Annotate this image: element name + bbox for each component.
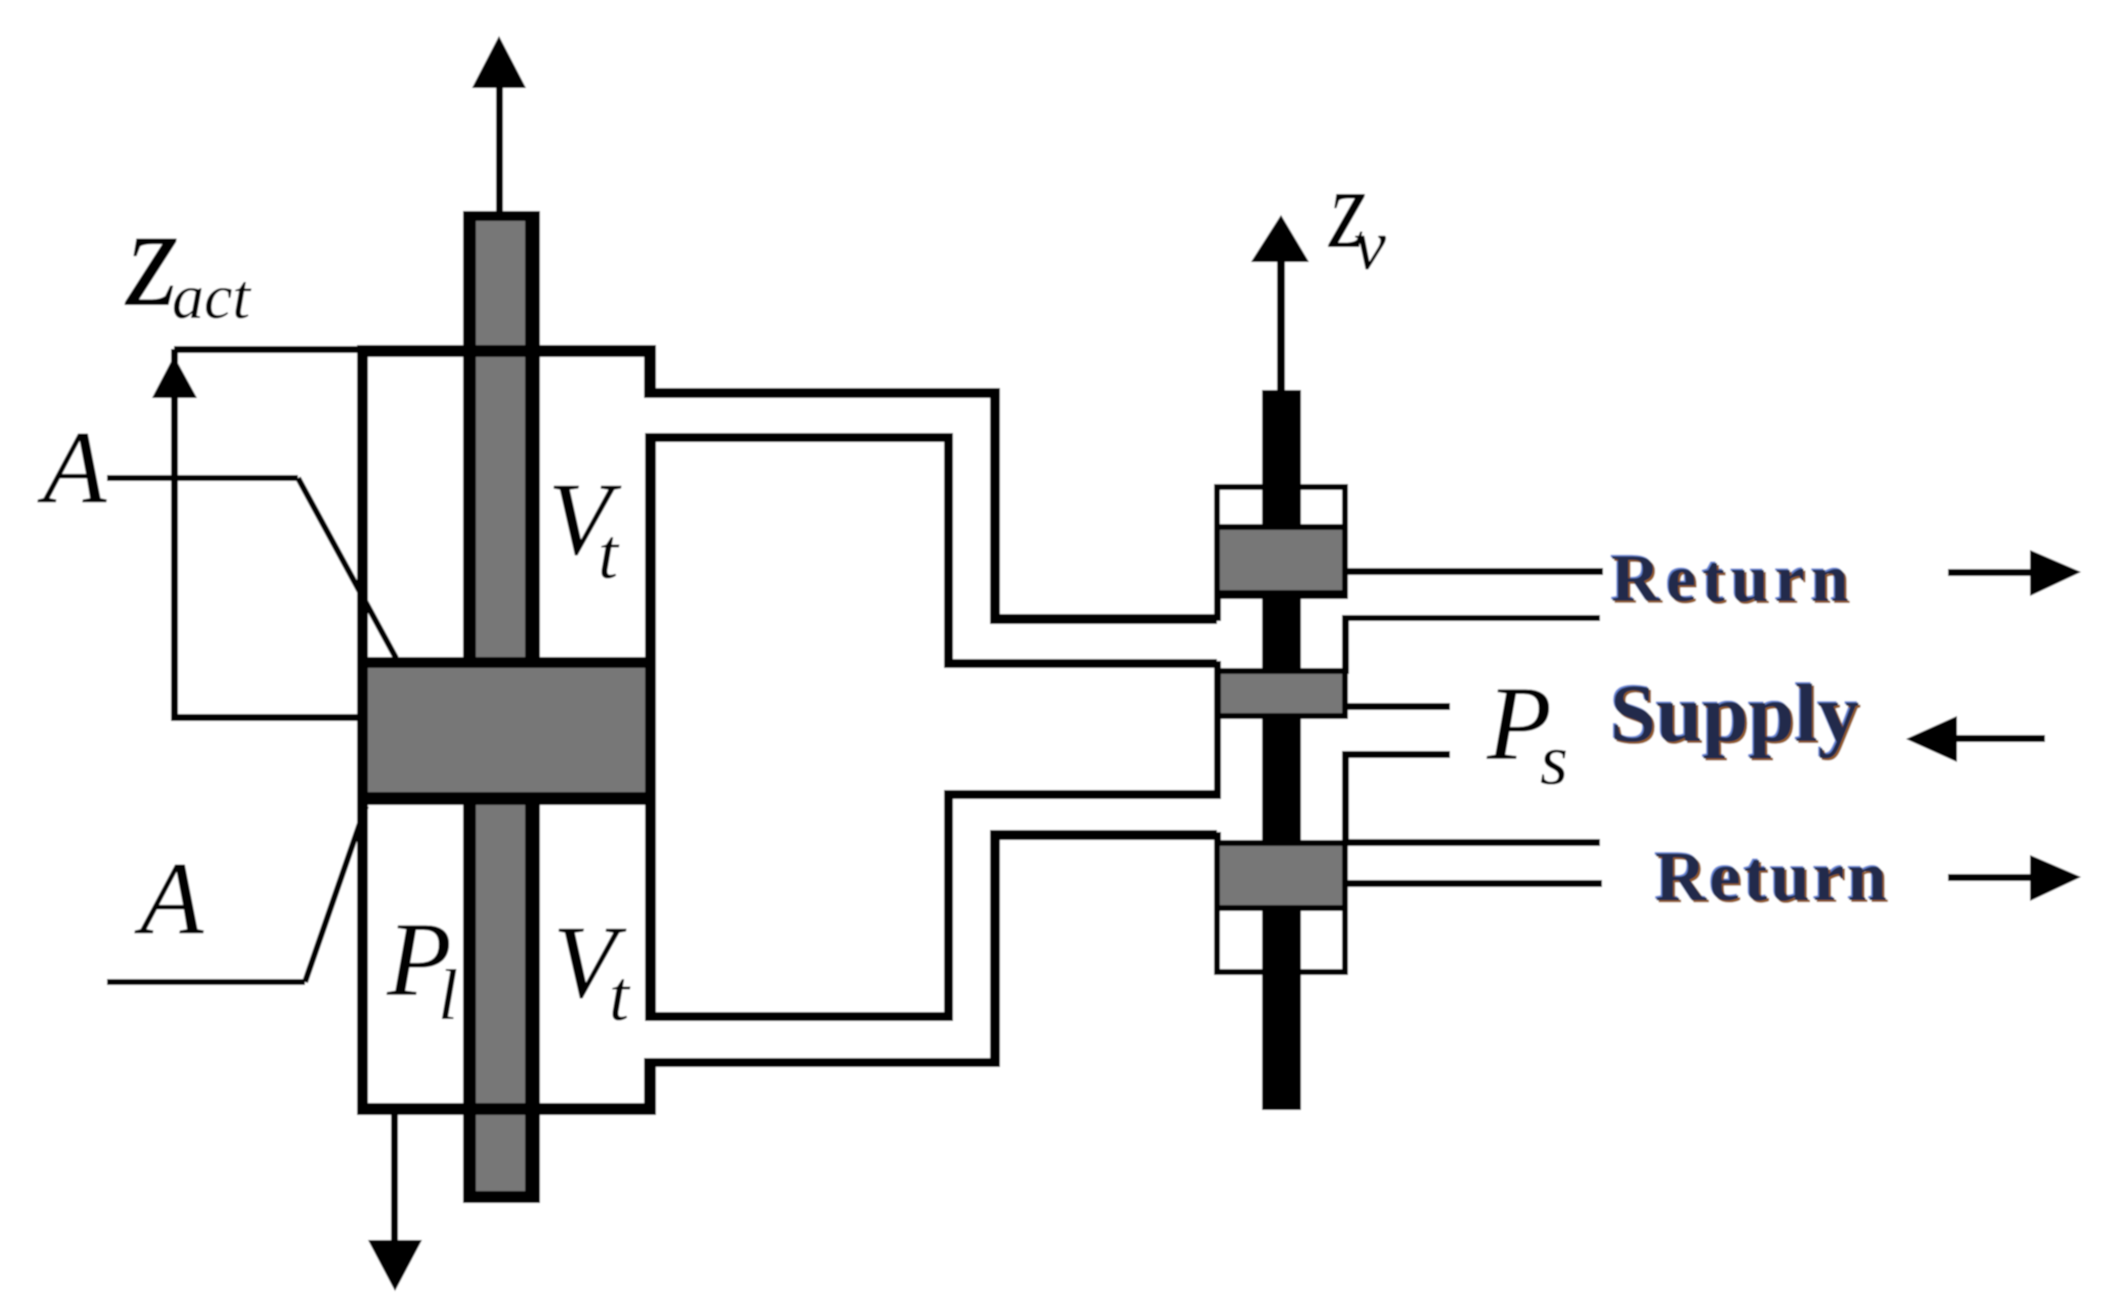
- wire pipe1 upper channel top wall: [648, 388, 1217, 624]
- label z_v: [1327, 145, 1386, 285]
- svg-text:v: v: [1354, 205, 1386, 285]
- label A upper with leader line: [37, 410, 396, 658]
- z_act measurement arrow: [152, 346, 361, 721]
- label V_t upper chamber: [548, 462, 622, 594]
- svg-text:A: A: [37, 410, 107, 525]
- svg-text:t: t: [598, 514, 620, 594]
- svg-text:z: z: [124, 177, 178, 338]
- arrow cylinder bottom: [368, 1113, 422, 1291]
- label Supply: [1609, 666, 1862, 762]
- arrow rod top (load direction): [472, 36, 526, 213]
- valve spool rod: [1262, 390, 1301, 1110]
- valve top end box: [1217, 487, 1345, 596]
- port line return bottom lower: [1344, 880, 1602, 887]
- label V_t lower chamber: [553, 905, 631, 1036]
- svg-text:Return: Return: [1655, 838, 1890, 916]
- valve bottom land: [1217, 843, 1345, 908]
- port line supply upper: [1344, 703, 1450, 710]
- svg-text:Return: Return: [1611, 540, 1855, 616]
- port line return bottom upper: [1342, 839, 1600, 846]
- valve bottom end box: [1217, 843, 1345, 972]
- svg-text:A: A: [134, 841, 204, 956]
- label P_s: [1486, 665, 1568, 800]
- arrow supply (flow in): [1906, 716, 2045, 762]
- label Return top: [1610, 539, 1857, 619]
- valve middle land: [1217, 671, 1345, 716]
- label P_l lower chamber: [386, 901, 458, 1035]
- label Return bottom: [1654, 837, 1892, 919]
- label z_act: [124, 177, 252, 338]
- wire pipe4 lower channel bottom wall: [650, 830, 1217, 1067]
- z_v arrow: [1251, 215, 1309, 390]
- svg-text:Supply: Supply: [1610, 667, 1859, 759]
- valve bore left wall segments: [1214, 596, 1221, 846]
- svg-text:t: t: [609, 956, 631, 1036]
- svg-text:act: act: [172, 261, 252, 332]
- actuator piston rod (gray, outlined): [463, 211, 540, 1203]
- arrow return top (flow out): [1948, 550, 2081, 596]
- label A lower with leader line: [107, 806, 366, 985]
- actuator piston: [368, 657, 645, 805]
- svg-text:l: l: [438, 955, 458, 1035]
- port line return top lower: [1344, 615, 1600, 621]
- actuator cylinder body walls: [357, 345, 656, 1115]
- port line return top (from top land): [1344, 568, 1603, 575]
- svg-text:s: s: [1540, 720, 1568, 800]
- valve bore right wall segments: [1342, 615, 1349, 846]
- wire pipe2 upper channel bottom wall: [650, 433, 1217, 668]
- valve top land: [1217, 527, 1345, 593]
- port line supply lower: [1342, 751, 1450, 758]
- arrow return bottom (flow out): [1948, 855, 2081, 901]
- wire pipe3 lower channel top wall: [650, 790, 1217, 1021]
